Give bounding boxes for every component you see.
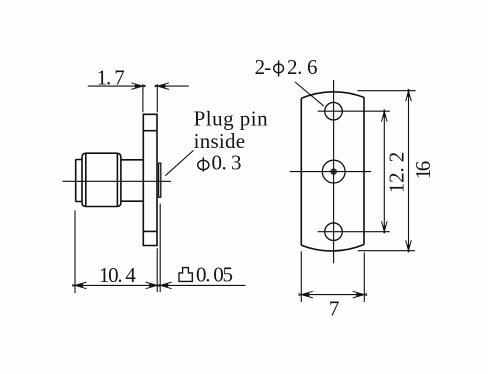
phi symbol small	[198, 157, 209, 171]
side view centerline	[63, 180, 172, 182]
svg-text:0. 3: 0. 3	[212, 151, 242, 175]
center hole	[322, 160, 345, 183]
dimension 1.7 text	[97, 65, 125, 89]
connector left end cap	[76, 159, 82, 201]
center hole inner circle	[331, 169, 336, 174]
center hole centerline	[290, 171, 371, 173]
svg-text:2-: 2-	[255, 55, 272, 79]
svg-text:12. 2: 12. 2	[384, 152, 408, 194]
hole callout text 2-phi2.6	[255, 55, 318, 79]
svg-text:10. 4: 10. 4	[99, 263, 136, 287]
cylinder body	[121, 160, 143, 201]
dimension 0.05 arrow and line	[157, 282, 245, 289]
nut chamfer line right	[116, 153, 118, 206]
hex nut body	[82, 153, 121, 206]
dimension 10.4 text	[99, 263, 136, 287]
svg-text:16: 16	[411, 161, 435, 180]
svg-text:inside: inside	[194, 129, 246, 153]
top mounting hole	[325, 102, 343, 120]
top hole centerline	[318, 110, 390, 112]
leader line for plug pin note	[165, 150, 193, 175]
dimension 10.4 line and arrows	[72, 282, 160, 289]
svg-text:2. 6: 2. 6	[287, 55, 318, 79]
dimension 12.2 line and arrows	[382, 110, 388, 234]
svg-text:7: 7	[329, 297, 340, 321]
bottom mounting hole	[325, 223, 343, 241]
front view flange plate outline	[301, 92, 364, 251]
dimension 16 extension lines	[358, 91, 416, 251]
mounting boss bump	[159, 163, 161, 197]
flange edge line bottom	[143, 230, 157, 232]
convexity symbol	[179, 268, 192, 282]
svg-text:1. 7: 1. 7	[97, 65, 125, 89]
dimension 12.2 text	[384, 152, 408, 194]
dimension 10.4 extension lines	[75, 204, 160, 293]
flange edge line top	[143, 130, 157, 132]
nut chamfer line left	[85, 153, 87, 206]
dimension 0.05 text	[196, 262, 233, 286]
front view vertical centerline	[333, 80, 335, 263]
flange side view	[143, 114, 157, 245]
dimension 16 text	[411, 161, 435, 180]
dimension 7 text	[329, 297, 340, 321]
hole callout phi symbol	[274, 60, 284, 76]
plug pin note text	[194, 107, 269, 175]
dimension 16 line and arrows	[406, 89, 412, 252]
bottom hole centerline	[318, 231, 390, 233]
hole callout leader	[295, 82, 324, 106]
dimension 1.7 extension lines	[143, 84, 157, 112]
svg-text:Plug pin: Plug pin	[194, 107, 269, 131]
dimension 7 line and arrows	[299, 291, 368, 298]
svg-text:0. 05: 0. 05	[196, 262, 233, 286]
dimension 7 extension lines	[301, 251, 364, 302]
dimension 1.7 lines and arrows	[88, 83, 189, 90]
